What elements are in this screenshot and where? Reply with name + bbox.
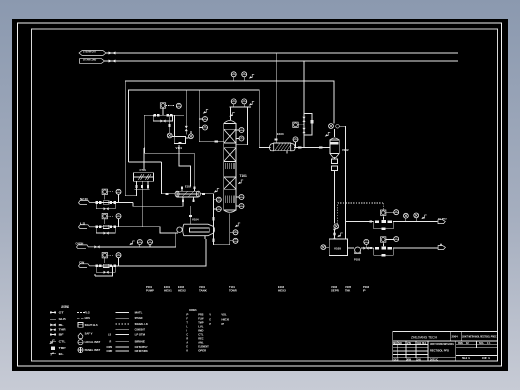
svg-text:SH 1: SH 1 [462, 357, 471, 360]
svg-text:ZN: ZN [407, 342, 411, 345]
svg-text:FLW: FLW [198, 318, 204, 321]
svg-text:THR: THR [59, 329, 66, 332]
svg-text:NO: NO [398, 342, 402, 345]
svg-text:CONDSAT: CONDSAT [135, 329, 146, 332]
svg-text:V102: V102 [331, 285, 338, 289]
svg-text:LS: LS [108, 334, 111, 337]
svg-text:FLG: FLG [85, 311, 90, 314]
svg-text:CW SUPPLY: CW SUPPLY [135, 346, 148, 349]
svg-text:E103: E103 [278, 285, 285, 289]
svg-text:REC: REC [198, 338, 203, 341]
svg-text:A: A [186, 342, 188, 345]
svg-text:BRINE: BRINE [135, 340, 146, 343]
svg-text:ELEMENT: ELEMENT [198, 346, 209, 349]
svg-text:TMP: TMP [198, 322, 204, 325]
svg-text:SCL: SCL [479, 342, 485, 345]
svg-text:IND: IND [198, 330, 204, 333]
svg-text:DWG: DWG [458, 342, 463, 345]
svg-text:EL: EL [59, 353, 65, 356]
svg-text:K: K [186, 350, 188, 353]
svg-text:ANL: ANL [198, 342, 204, 345]
svg-text:LOCAL INST: LOCAL INST [85, 341, 101, 344]
svg-text:PUMP: PUMP [146, 289, 154, 293]
svg-text:CT01: CT01 [140, 168, 147, 172]
svg-text:CHK: CHK [416, 358, 421, 361]
svg-text:CWS: CWS [107, 346, 113, 349]
svg-text:STEAM: STEAM [135, 317, 143, 320]
svg-text:E102: E102 [185, 185, 192, 189]
svg-text:RECTISOL PFD: RECTISOL PFD [430, 350, 449, 353]
svg-text:CH3OH: CH3OH [76, 242, 84, 246]
svg-text:BL: BL [59, 324, 65, 327]
svg-text:TO SRU: TO SRU [438, 218, 447, 220]
svg-text:PANEL INST: PANEL INST [85, 349, 101, 352]
svg-text:OPER: OPER [198, 350, 206, 353]
svg-text:CTL: CTL [59, 340, 67, 343]
svg-text:TOWR: TOWR [229, 289, 237, 293]
svg-text:V105: V105 [345, 285, 352, 289]
svg-text:E101: E101 [164, 285, 171, 289]
svg-text:100KT METHANOL RECTISOL PROC: 100KT METHANOL RECTISOL PROC [462, 336, 497, 339]
svg-text:BF: BF [59, 334, 65, 337]
svg-text:HEX1: HEX1 [164, 289, 172, 293]
svg-text:HEX3: HEX3 [278, 289, 286, 293]
svg-text:LS: LS [80, 222, 86, 226]
svg-text:PRS: PRS [198, 314, 204, 317]
svg-text:T101: T101 [240, 174, 247, 178]
svg-text:R: R [110, 340, 112, 343]
svg-text:P103: P103 [354, 258, 361, 262]
svg-text:P103: P103 [363, 285, 370, 289]
svg-text:P: P [186, 313, 188, 317]
svg-text:STEAM COND: STEAM COND [83, 57, 96, 61]
svg-text:V101: V101 [199, 285, 206, 289]
svg-text:LEGEND: LEGEND [61, 305, 69, 309]
svg-text:TRP: TRP [59, 347, 67, 350]
svg-text:TANK: TANK [199, 289, 207, 293]
svg-text:MK: MK [393, 342, 397, 345]
svg-text:CW RETURN: CW RETURN [135, 350, 148, 353]
svg-text:MATL: MATL [135, 311, 143, 314]
svg-text:SIGNAL LN: SIGNAL LN [135, 323, 148, 326]
svg-text:C: C [186, 334, 188, 337]
svg-text:GLB: GLB [59, 318, 66, 321]
svg-text:LP STM: LP STM [135, 334, 145, 337]
svg-text:V104: V104 [192, 218, 199, 222]
svg-text:TNK: TNK [345, 289, 350, 293]
svg-text:E102: E102 [178, 285, 185, 289]
svg-text:R: R [186, 338, 188, 341]
svg-text:CTL: CTL [198, 334, 204, 337]
svg-text:OF 1: OF 1 [482, 357, 491, 360]
svg-text:HEX2: HEX2 [178, 289, 186, 293]
svg-text:STEAM OUT: STEAM OUT [83, 49, 96, 53]
svg-text:DES: DES [394, 358, 399, 361]
svg-text:SAF V: SAF V [85, 333, 93, 336]
svg-text:CW: CW [79, 261, 85, 265]
svg-text:HOS: HOS [85, 317, 91, 320]
svg-text:100KT CRUDE METHANOL: 100KT CRUDE METHANOL [430, 343, 454, 346]
svg-text:CHG FILE: CHG FILE [417, 342, 426, 345]
svg-text:N2 IN: N2 IN [80, 197, 88, 201]
svg-text:P: P [363, 289, 366, 293]
svg-text:V105: V105 [334, 246, 341, 250]
svg-text:HEX: HEX [221, 318, 229, 321]
svg-text:E103: E103 [277, 132, 284, 136]
svg-text:P101: P101 [146, 285, 153, 289]
svg-text:SEPR: SEPR [331, 289, 339, 293]
svg-text:DATE SC: DATE SC [430, 358, 438, 361]
svg-text:GT: GT [59, 311, 65, 314]
svg-text:LVL: LVL [198, 326, 204, 329]
svg-text:2004: 2004 [452, 335, 459, 339]
svg-text:CWR: CWR [107, 350, 113, 353]
svg-text:VSL: VSL [221, 314, 227, 317]
svg-text:SIGHT GLS: SIGHT GLS [85, 324, 98, 327]
svg-text:T101: T101 [229, 285, 235, 289]
svg-text:CODES: CODES [189, 308, 197, 312]
svg-text:ZHEJIANG TECH: ZHEJIANG TECH [411, 334, 437, 339]
svg-text:DRW: DRW [406, 358, 412, 361]
